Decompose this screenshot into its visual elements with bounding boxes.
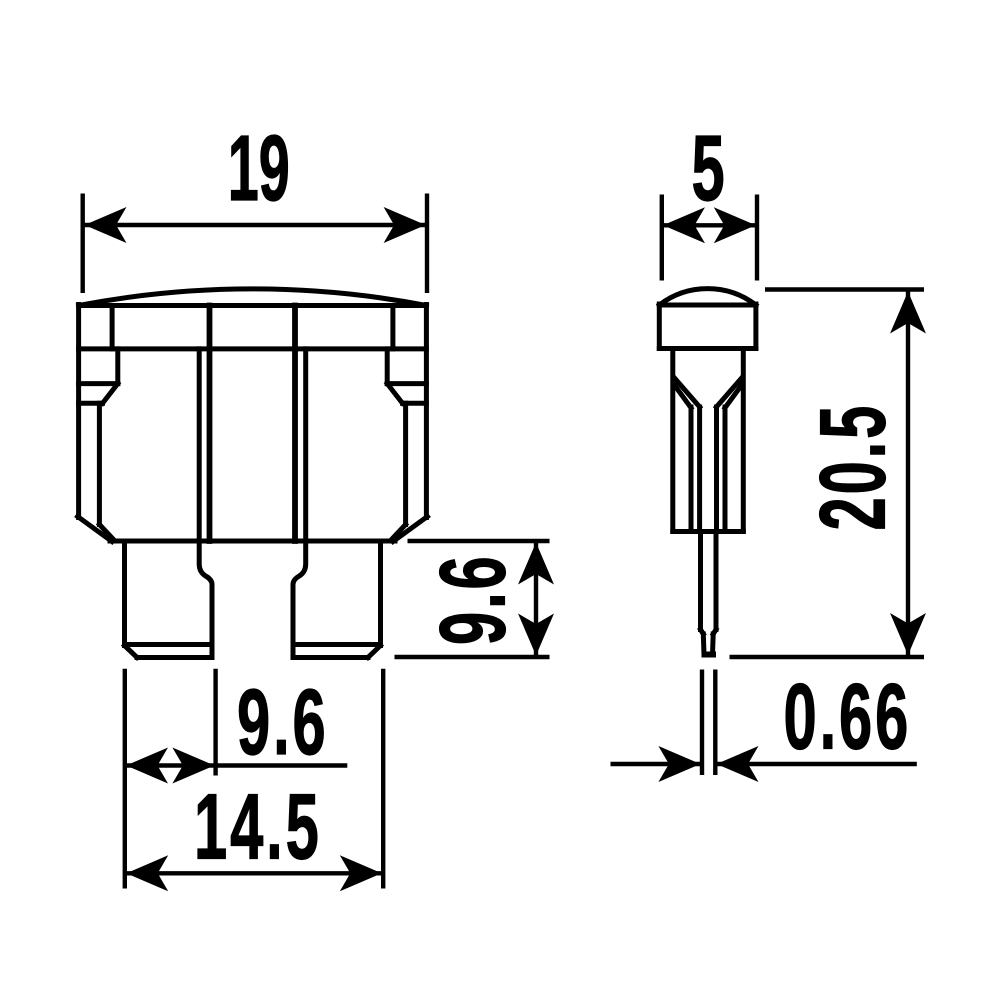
svg-text:19: 19 xyxy=(228,118,290,221)
svg-text:20.5: 20.5 xyxy=(800,403,905,531)
svg-text:9.6: 9.6 xyxy=(237,670,329,775)
svg-text:0.66: 0.66 xyxy=(784,664,912,769)
svg-text:5: 5 xyxy=(692,116,728,221)
svg-text:9.6: 9.6 xyxy=(420,553,525,645)
svg-text:14.5: 14.5 xyxy=(194,774,322,879)
